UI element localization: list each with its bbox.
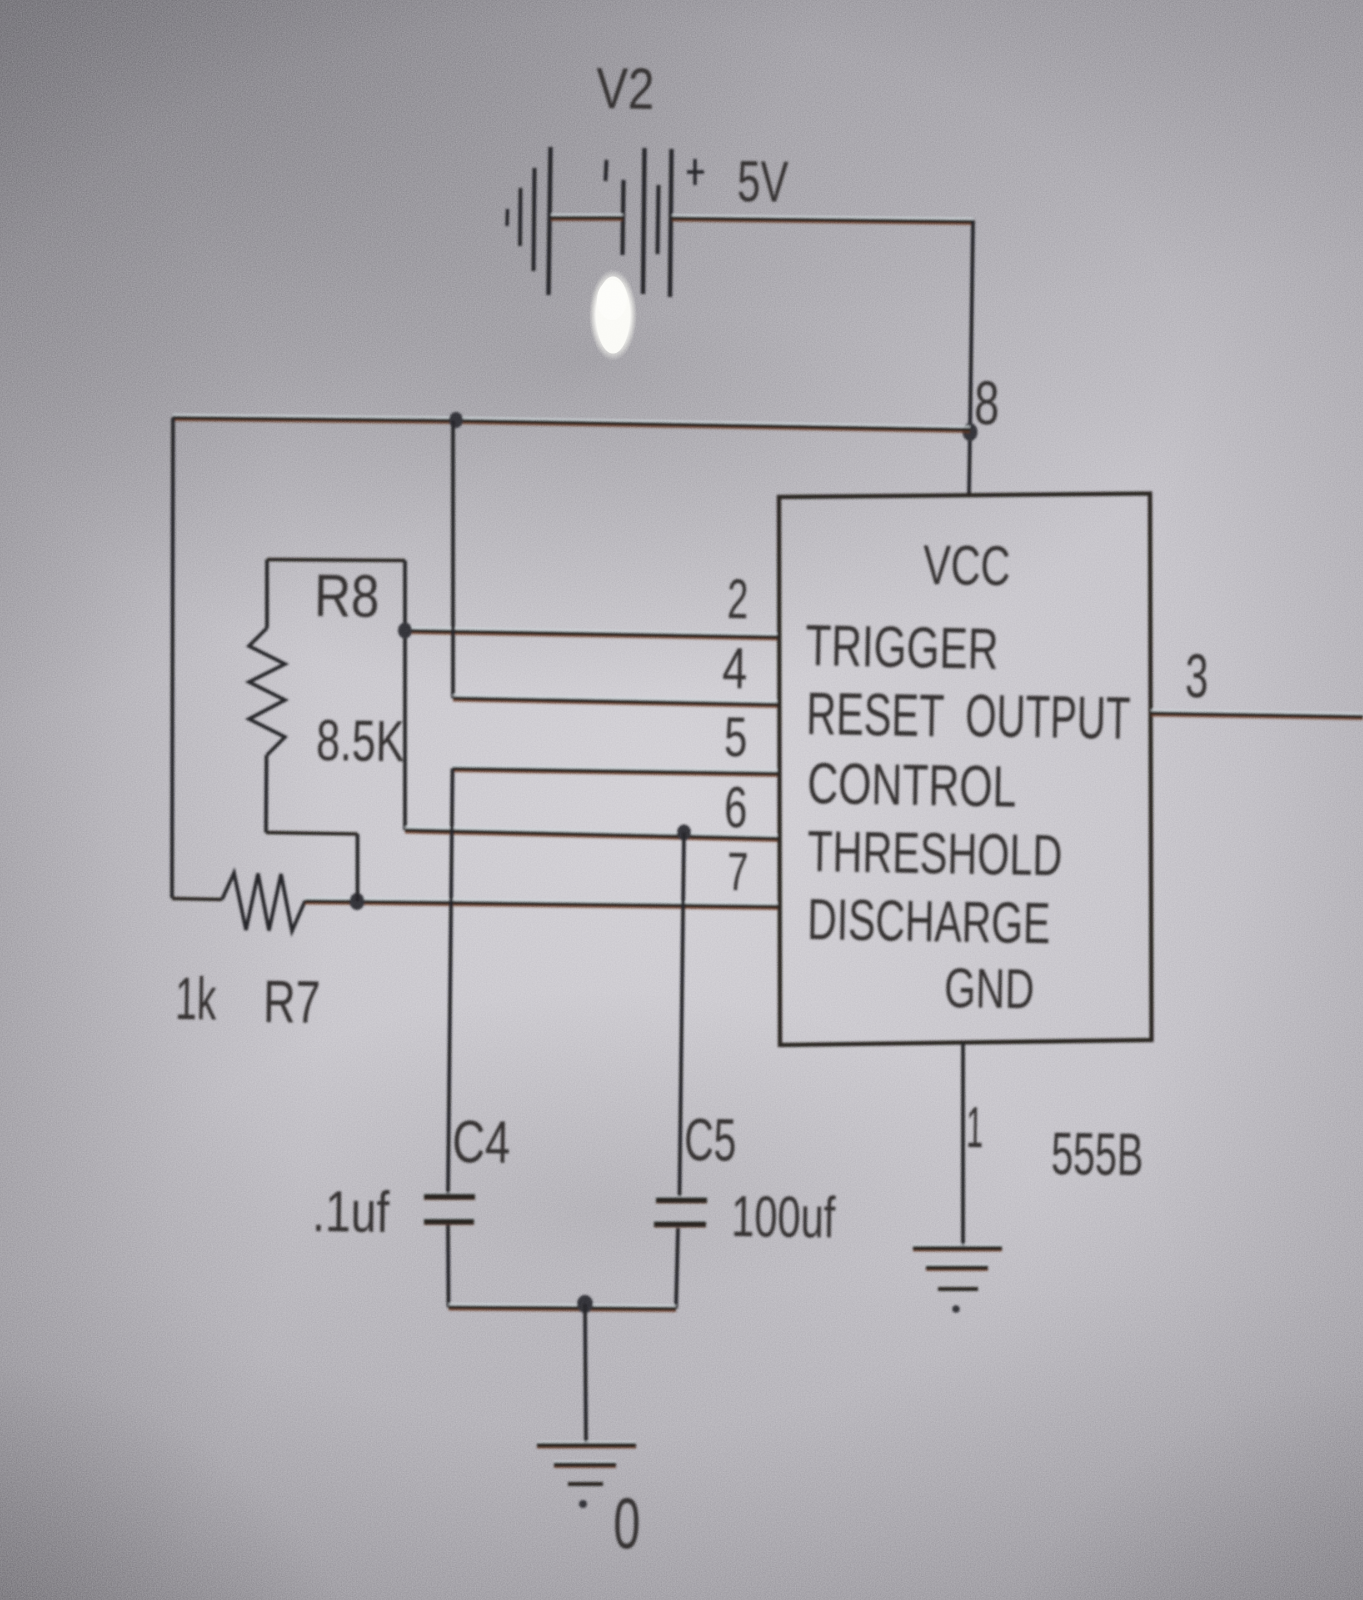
ground pin1 bar 2 xyxy=(926,1265,988,1270)
junction VCC rail / reset drop xyxy=(449,412,463,428)
battery V2 long plate 3 xyxy=(670,149,672,297)
battery V2 left fade plate 1 xyxy=(505,209,509,226)
wire battery internal xyxy=(551,215,623,220)
wire threshold node down to C5 xyxy=(680,833,685,1197)
junction discharge node xyxy=(350,893,365,910)
capacitor C5 bottom plate xyxy=(654,1221,706,1226)
wire output pin 3 xyxy=(1151,710,1363,719)
wire corner down to node 8 xyxy=(970,220,973,433)
ground pin1 dot xyxy=(952,1305,960,1313)
junction trigger node xyxy=(398,623,412,639)
wire R8 lower lead xyxy=(264,755,268,833)
ground 0 dot xyxy=(579,1500,587,1508)
ground 0 bar 2 xyxy=(554,1462,616,1467)
battery V2 left fade plate 2 xyxy=(518,188,522,246)
wire R7 left lead xyxy=(172,899,222,900)
ground pin1 bar 1 xyxy=(913,1245,1002,1250)
wire R8 upper lead xyxy=(265,560,269,629)
capacitor C5 top plate xyxy=(656,1197,707,1202)
wire discharge node to pin 7 xyxy=(305,898,779,909)
screen glare spot xyxy=(589,269,637,361)
junction ground rail xyxy=(577,1295,593,1313)
wire R8 bottom horizontal xyxy=(266,833,358,835)
wire bottom ground rail xyxy=(449,1304,677,1311)
ground pin1 bar 3 xyxy=(938,1287,978,1291)
wire C5 to ground rail xyxy=(676,1228,678,1309)
battery V2 small tick xyxy=(606,160,607,181)
wire R8 top horizontal xyxy=(267,560,405,561)
wire R8 right vertical xyxy=(403,561,407,831)
ground 0 bar 3 xyxy=(568,1482,603,1486)
wire pin 1 to ground xyxy=(961,1043,965,1247)
resistor R7 zigzag xyxy=(222,873,305,931)
wire trigger node to pin 2 xyxy=(405,628,779,640)
wire R8 bottom to discharge node xyxy=(356,834,360,902)
wire battery positive to corner xyxy=(672,215,973,224)
wire VCC rail xyxy=(173,415,970,432)
battery V2 short plate 1 xyxy=(623,180,624,255)
wire left vertical VCC to R7 xyxy=(172,418,173,899)
battery V2 left fade plate 3 xyxy=(534,168,535,271)
junction threshold / C5 xyxy=(677,825,691,841)
wire pin 5 control xyxy=(453,766,780,776)
ground 0 bar 1 xyxy=(537,1442,636,1447)
resistor R8 zigzag xyxy=(249,628,285,755)
wire VCC to reset corner xyxy=(451,421,455,699)
wire reset corner to pin 4 xyxy=(453,695,779,707)
capacitor C4 bottom plate xyxy=(424,1219,474,1224)
battery V2 long plate 2 xyxy=(643,148,645,294)
battery V2 short plate 2 xyxy=(658,185,659,254)
junction node 8 xyxy=(963,423,978,441)
wire down to ground 0 xyxy=(585,1304,586,1443)
wire control corner down to C4 xyxy=(448,769,453,1195)
op-amp/IC U1 555B box xyxy=(779,494,1152,1046)
battery V2 plus sign xyxy=(687,159,704,185)
wire C4 to ground rail xyxy=(446,1225,450,1307)
wire threshold node to pin 6 xyxy=(405,827,779,841)
capacitor C4 top plate xyxy=(424,1194,475,1199)
battery V2 long plate 1 xyxy=(549,147,551,295)
wire node 8 to IC pin 8 xyxy=(969,433,970,496)
